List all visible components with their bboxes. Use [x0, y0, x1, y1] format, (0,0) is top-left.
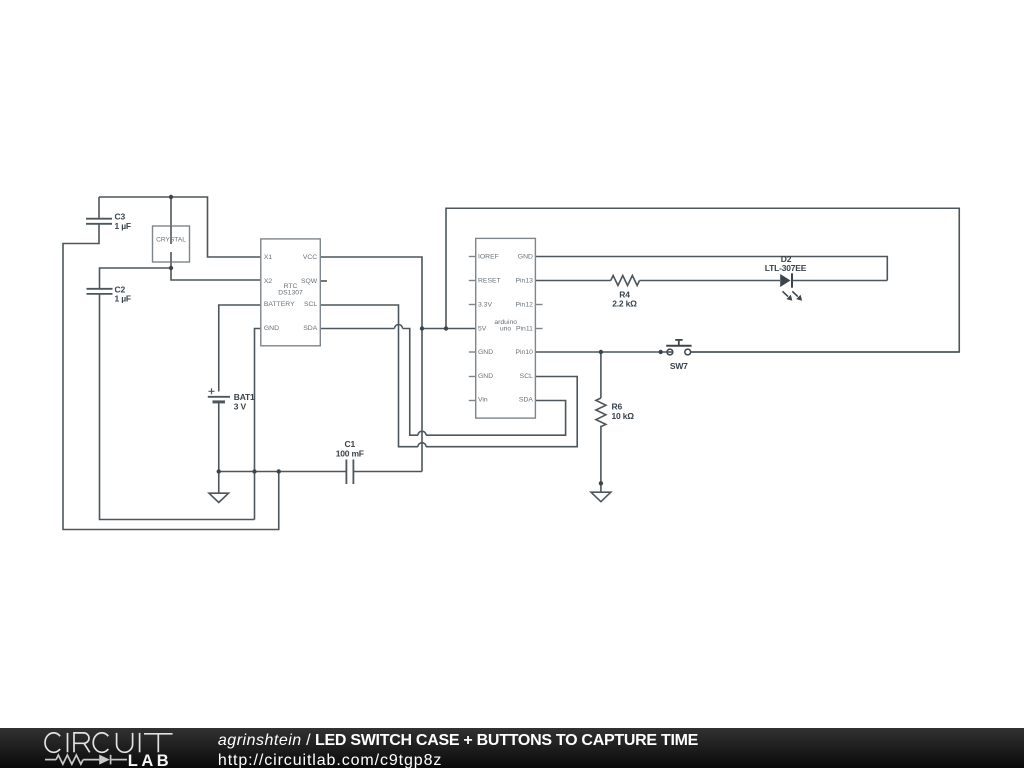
svg-text:DS1307: DS1307: [278, 289, 303, 296]
svg-text:http://circuitlab.com/c9tgp8z: http://circuitlab.com/c9tgp8z: [218, 752, 442, 768]
svg-text:VCC: VCC: [303, 254, 317, 261]
svg-text:SDA: SDA: [519, 397, 533, 404]
svg-text:Vin: Vin: [478, 397, 488, 404]
svg-text:SDA: SDA: [303, 325, 317, 332]
svg-text:IOREF: IOREF: [478, 254, 499, 261]
svg-text:1 µF: 1 µF: [115, 294, 131, 304]
svg-text:5V: 5V: [478, 325, 487, 332]
svg-text:GND: GND: [518, 254, 533, 261]
svg-text:Pin11: Pin11: [516, 325, 533, 332]
svg-text:10 kΩ: 10 kΩ: [612, 411, 635, 421]
svg-text:Pin13: Pin13: [516, 278, 534, 285]
svg-text:X2: X2: [264, 278, 273, 285]
svg-text:agrinshtein / LED SWITCH CASE: agrinshtein / LED SWITCH CASE + BUTTONS …: [218, 732, 699, 749]
svg-text:GND: GND: [478, 349, 493, 356]
svg-text:RESET: RESET: [478, 278, 501, 285]
svg-text:GND: GND: [264, 325, 279, 332]
svg-text:SCL: SCL: [520, 373, 533, 380]
svg-text:Pin12: Pin12: [516, 301, 534, 308]
svg-text:Pin10: Pin10: [516, 349, 534, 356]
svg-text:CRYSTAL: CRYSTAL: [156, 237, 186, 244]
svg-text:LTL-307EE: LTL-307EE: [765, 263, 807, 273]
svg-text:LAB: LAB: [128, 752, 172, 768]
svg-text:3 V: 3 V: [234, 402, 247, 412]
svg-text:SCL: SCL: [304, 301, 317, 308]
svg-text:100 mF: 100 mF: [336, 448, 364, 458]
svg-text:GND: GND: [478, 373, 493, 380]
svg-text:BATTERY: BATTERY: [264, 301, 295, 308]
svg-text:SW7: SW7: [670, 361, 688, 371]
svg-text:SQW: SQW: [301, 278, 318, 285]
svg-text:2.2 kΩ: 2.2 kΩ: [612, 299, 637, 309]
svg-text:uno: uno: [500, 325, 512, 332]
svg-text:1 µF: 1 µF: [115, 221, 131, 231]
svg-text:3.3V: 3.3V: [478, 301, 492, 308]
svg-text:X1: X1: [264, 254, 273, 261]
svg-text:BAT1: BAT1: [234, 392, 255, 402]
